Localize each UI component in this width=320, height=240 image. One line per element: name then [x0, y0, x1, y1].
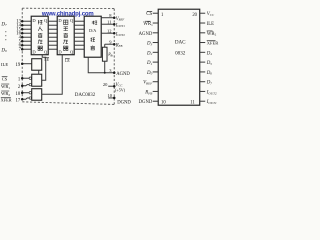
svg-text:IOUT1: IOUT1 [206, 100, 217, 105]
gate G2 (AND) for CS/WR1 [32, 74, 42, 86]
svg-text:WR1: WR1 [143, 22, 153, 27]
label XFER 17 [1, 98, 21, 104]
label ILE 19 [1, 62, 21, 68]
wire IOUT1 (pin 11) [101, 23, 115, 26]
DIP pin 3 label AGND [139, 32, 153, 37]
svg-text:10: 10 [108, 93, 113, 98]
pin WR1 (2) wire with inverter bubble [21, 83, 32, 87]
DIP pin 9 label RFB [144, 91, 152, 96]
wire RFB (pin 9) [105, 43, 116, 46]
svg-text:AGND: AGND [139, 32, 153, 37]
DIP pin 12 label IOUT2 [206, 91, 217, 96]
label 8 VREF [109, 13, 124, 22]
pin ILE (19) wire [21, 62, 32, 65]
DIP pin 20 label VCC [207, 12, 215, 17]
svg-text:10: 10 [161, 100, 166, 105]
wire G3 output to LE2 [42, 55, 63, 95]
svg-text:IOUT1: IOUT1 [115, 23, 126, 28]
svg-text:DGND: DGND [117, 101, 131, 106]
label 20 VCC (+5V) [103, 82, 126, 93]
vertical ellipsis between D7 and D0 [5, 31, 6, 40]
svg-text:D0: D0 [146, 71, 153, 76]
svg-text:11: 11 [190, 100, 195, 105]
svg-text:20: 20 [103, 82, 108, 87]
svg-text:D7: D7 [0, 22, 7, 27]
svg-text:D6: D6 [206, 71, 213, 76]
svg-text:D/A: D/A [89, 28, 96, 33]
label CS 1 [2, 77, 21, 83]
svg-text:D1: D1 [146, 61, 153, 66]
DIP pin 7 label D0 [146, 71, 153, 76]
DIP body text DAC 0832 [175, 39, 186, 56]
DIP pin 15 label D5 [206, 61, 213, 66]
svg-text:D7: D7 [206, 81, 213, 86]
svg-text:12: 12 [107, 28, 112, 33]
pin WR2 (18) wire with inverter bubble [21, 91, 32, 94]
8-bit D/A converter block [84, 16, 101, 57]
svg-text:DGND: DGND [139, 100, 153, 105]
wire IOUT2 (pin 12) [101, 32, 115, 35]
svg-text:0832: 0832 [175, 51, 186, 57]
DIP pin 19 label ILE [207, 22, 214, 27]
resistor Rfb [102, 44, 107, 73]
svg-text:ILE: ILE [1, 62, 8, 67]
svg-text:D0: D0 [0, 48, 7, 53]
svg-text:WR2: WR2 [1, 91, 10, 97]
svg-text:D5: D5 [206, 61, 213, 66]
svg-text:19: 19 [16, 63, 21, 68]
DIP corner pin numbers 1, 20, 10, 11 [161, 13, 198, 105]
svg-text:VREF: VREF [143, 81, 153, 86]
DIP pin 1 label CS [146, 11, 152, 17]
pin VCC (20) stub [108, 85, 115, 88]
pin XFER (17) wire with inverter bubble [21, 97, 32, 101]
DIP pin 5 label D2 [146, 51, 153, 56]
pin numbers 13,14,15,16,4,5,6,7 [16, 20, 21, 53]
svg-text:WR2: WR2 [207, 32, 217, 37]
svg-text:RFB: RFB [144, 91, 152, 96]
DIP pin 11 label IOUT1 [206, 100, 217, 105]
svg-text:ILE: ILE [207, 22, 214, 27]
label D0 [0, 48, 7, 53]
DIP pin 6 label D1 [146, 61, 153, 66]
svg-text:(+5V): (+5V) [115, 88, 126, 93]
svg-text:XFER: XFER [1, 98, 12, 103]
dashed boundary of DAC0832 internal block diagram [22, 8, 114, 104]
svg-text:DAC: DAC [175, 39, 186, 45]
gate G1 (AND) for LE1 [32, 59, 42, 71]
DIP pin 10 label DGND [139, 100, 153, 105]
svg-text:CS: CS [2, 77, 8, 82]
svg-text:VREF: VREF [116, 17, 125, 22]
svg-text:AGND: AGND [116, 72, 130, 77]
svg-text:WR1: WR1 [1, 84, 10, 90]
DIP pin 17 label XFER [207, 41, 219, 46]
svg-text:D4: D4 [206, 51, 213, 56]
svg-text:18: 18 [16, 92, 21, 97]
DIP pin 18 label WR2 [207, 31, 217, 37]
svg-text:VCC: VCC [207, 12, 215, 17]
wire VREF (pin 8) [101, 16, 115, 19]
8-bit DAC register block [57, 16, 74, 55]
internal 8-bit bus wires between DAC register and D/A converter [74, 21, 84, 49]
DIP pin 13 label D7 [206, 81, 213, 86]
label 3 AGND [109, 68, 130, 77]
watermark www.chinadpj.com [41, 12, 94, 18]
gate G3 (AND) for WR2/XFER [32, 89, 42, 101]
svg-text:XFER: XFER [207, 41, 219, 46]
label WR2 18 [1, 91, 21, 97]
wire G2 output to LE1 [42, 55, 46, 81]
DIP pin 8 label VREF [143, 81, 153, 86]
label 10 DGND [108, 93, 132, 105]
label 11 IOUT1 [107, 19, 125, 28]
wire D/A converter to AGND (pin 3) [88, 57, 115, 74]
pin DGND (10) stub [108, 97, 115, 100]
label WR1 2 [1, 84, 21, 90]
internal 8-bit bus wires between input register and DAC register [48, 21, 57, 49]
svg-text:DAC0832: DAC0832 [75, 93, 96, 98]
8-bit data input wires D7..D0 with pin dots [21, 20, 31, 51]
svg-text:20: 20 [192, 13, 197, 18]
svg-text:D2: D2 [146, 51, 153, 56]
svg-text:11: 11 [107, 19, 111, 24]
label 12 IOUT2 [107, 28, 125, 37]
svg-text:IOUT2: IOUT2 [115, 32, 126, 37]
svg-text:17: 17 [16, 99, 21, 104]
svg-text:D3: D3 [146, 42, 153, 47]
latch enable terminal LE2 of DAC register [65, 59, 70, 64]
DAC0832 DIP-20 package outline [158, 9, 200, 105]
DIP right pin stubs 20-11 [200, 13, 206, 101]
label Rfb value [107, 52, 113, 58]
wire G1 to G2 connector [38, 70, 40, 74]
8-bit input register block [31, 16, 48, 55]
DIP pin 16 label D4 [206, 51, 213, 56]
DIP pin 2 label WR1 [143, 21, 153, 27]
latch enable terminal LE1 of input register [44, 58, 49, 63]
svg-text:LE: LE [65, 59, 70, 63]
DIP pin 14 label D6 [206, 71, 213, 76]
DIP left pin stubs 1-10 [153, 13, 159, 101]
svg-text:RFB: RFB [115, 43, 123, 48]
svg-text:CS: CS [146, 12, 152, 17]
label 9 RFB [109, 39, 122, 48]
pin CS (1) wire with inverter bubble [21, 77, 32, 80]
DIP pin 4 label D3 [146, 42, 153, 47]
part name DAC0832 [75, 93, 96, 98]
label D7 [0, 22, 7, 27]
svg-text:IOUT2: IOUT2 [206, 91, 217, 96]
